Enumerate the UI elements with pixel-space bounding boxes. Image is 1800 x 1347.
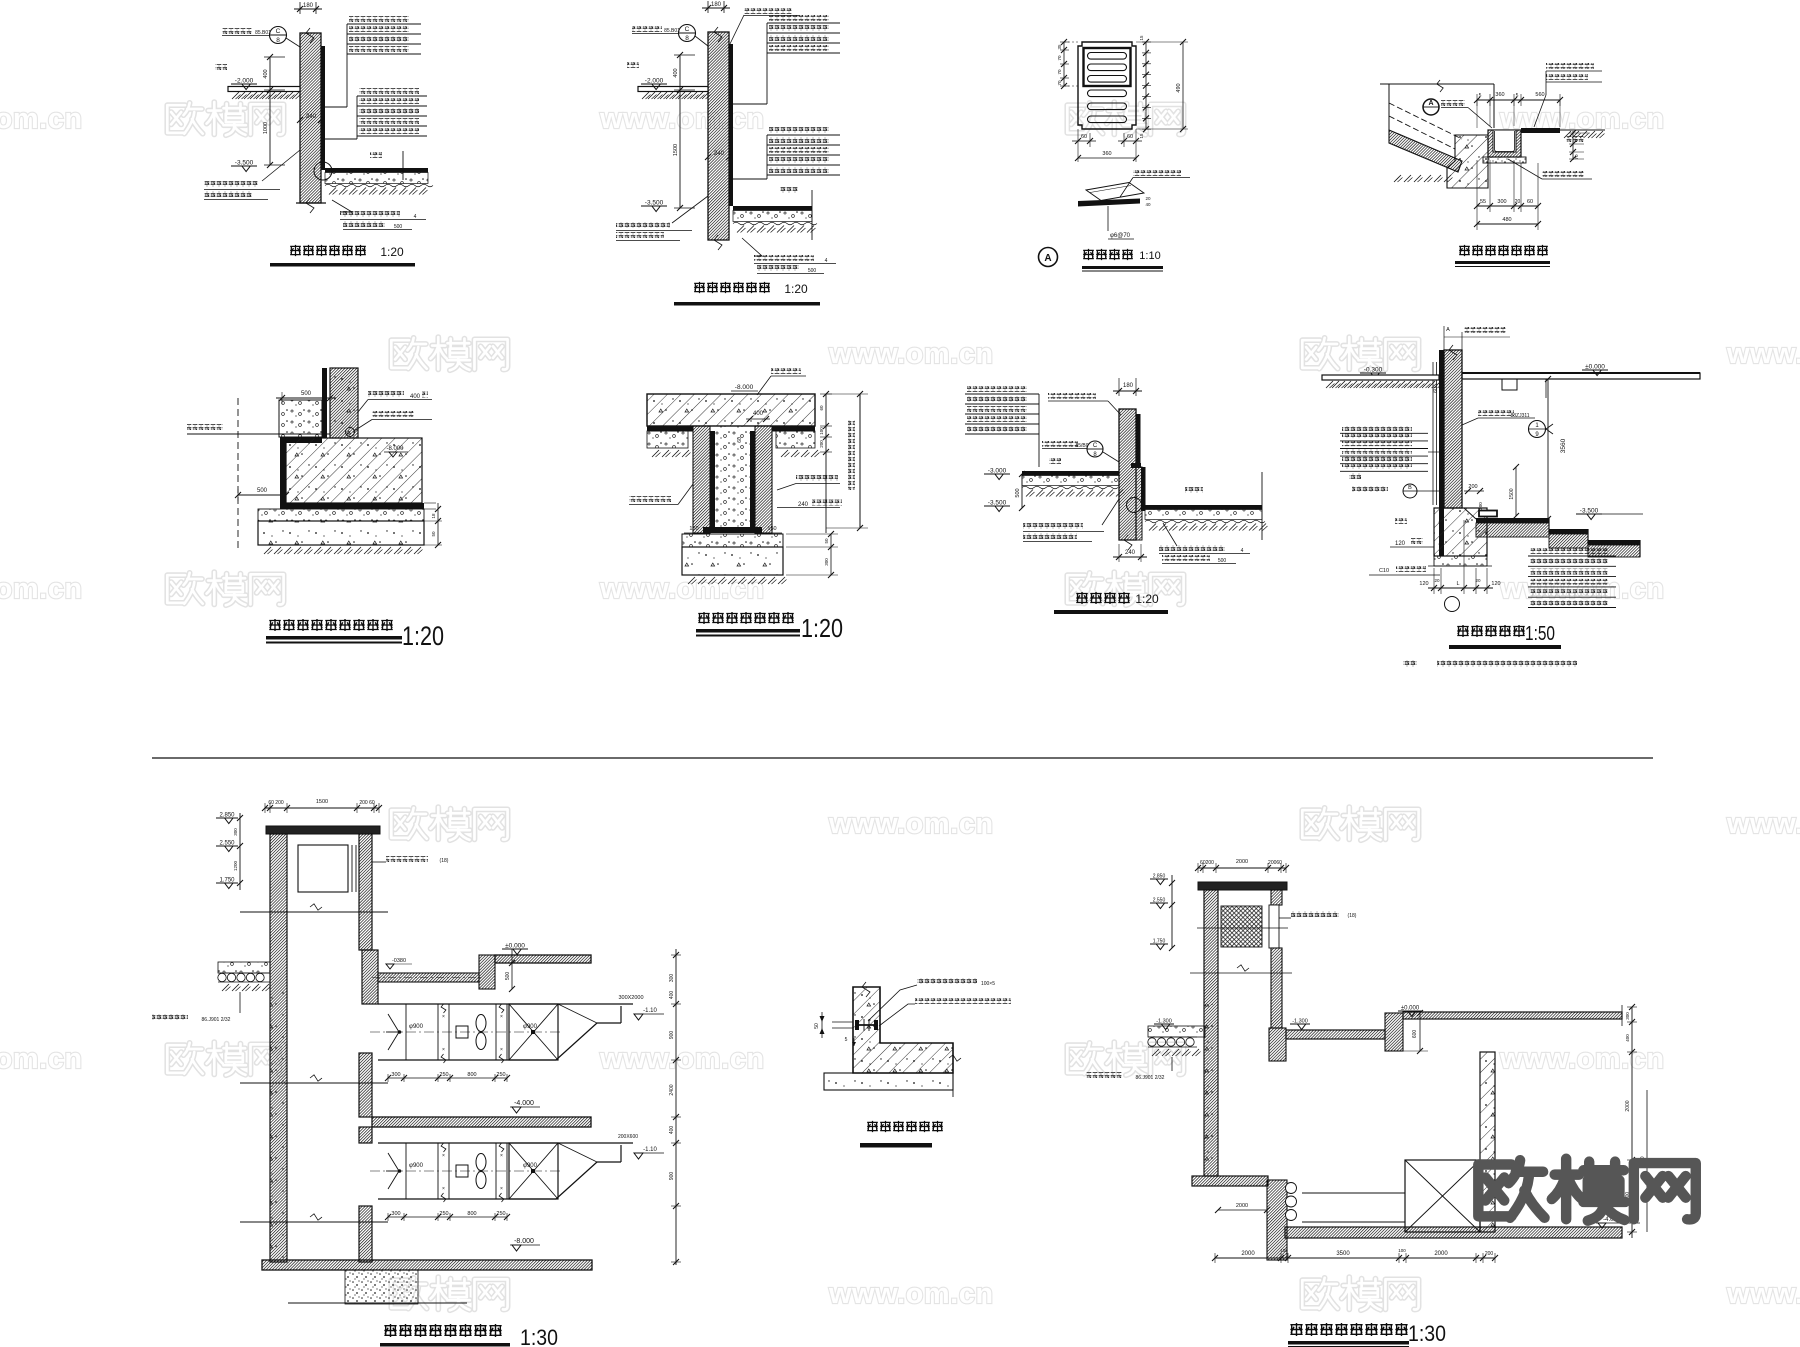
svg-text:200 60: 200 60 xyxy=(359,800,375,806)
d1 title xyxy=(290,245,301,256)
svg-text:C10: C10 xyxy=(1379,568,1389,574)
d1 callout stack mid-right xyxy=(359,88,419,94)
d2 callout stack mid-right xyxy=(769,127,829,133)
svg-text:250: 250 xyxy=(439,1072,448,1078)
d7 bottom dim 240 xyxy=(1118,544,1120,562)
d6 top slab xyxy=(647,394,815,426)
d9 grille box xyxy=(298,845,348,892)
d3 bubble A xyxy=(1039,248,1058,267)
svg-text:A: A xyxy=(1044,253,1051,264)
d1 wall bottom break xyxy=(306,198,314,213)
svg-text:A: A xyxy=(1428,100,1433,107)
svg-text:250: 250 xyxy=(439,1211,448,1217)
d5 cushion layers xyxy=(258,509,424,521)
d4 top slab line xyxy=(1380,83,1494,85)
svg-text:×: × xyxy=(500,1014,503,1020)
d5 wall xyxy=(330,368,358,438)
d8 wall protection line xyxy=(1432,362,1434,505)
d6 leader 钢筋混凝土地梁 left xyxy=(629,496,671,502)
d9 right wall segments xyxy=(359,834,372,950)
svg-text:-8.000: -8.000 xyxy=(386,446,404,452)
d11 center lines xyxy=(1197,927,1288,929)
svg-text:250: 250 xyxy=(496,1072,505,1078)
d11 left wall xyxy=(1204,890,1218,1176)
d8 ground left xyxy=(1322,375,1439,380)
d6 bottom right dims xyxy=(830,534,832,575)
svg-text:60: 60 xyxy=(737,437,743,443)
d7 title xyxy=(1076,592,1087,604)
svg-text:55: 55 xyxy=(1480,199,1486,205)
detail6 地梁处防水大样 group xyxy=(629,368,868,643)
d1 vertical dim 400/1000 xyxy=(269,57,271,165)
d6 title xyxy=(698,612,709,624)
d1 bubble leader text xyxy=(222,28,252,34)
d4 right small dims xyxy=(1572,131,1574,160)
d10 title xyxy=(867,1121,878,1132)
svg-text:(18): (18) xyxy=(440,858,449,864)
d11 lower slab xyxy=(1285,1227,1622,1238)
d8 wall membrane left xyxy=(1439,350,1444,556)
d11 right wall xyxy=(1480,1052,1495,1232)
d2 boundary line right xyxy=(811,190,813,240)
svg-text:www.om.cn: www.om.cn xyxy=(1499,1043,1665,1075)
d3 3d plate top face xyxy=(1086,183,1144,201)
d3 grate outline xyxy=(1078,42,1136,129)
d5 pile cap mass xyxy=(286,438,422,503)
svg-text:1:20: 1:20 xyxy=(380,245,404,259)
d1 text 240 in wall xyxy=(297,117,303,123)
svg-text:×: × xyxy=(442,1153,445,1159)
d2 wall breaks xyxy=(714,235,722,250)
d8 note xyxy=(1403,660,1417,667)
svg-text:www.om.cn: www.om.cn xyxy=(828,338,994,370)
svg-text:600: 600 xyxy=(1412,1030,1418,1039)
svg-text:480: 480 xyxy=(1502,217,1511,223)
d2 vertical dim 400/1500 xyxy=(679,55,681,208)
detail10 地下室施工缝 group xyxy=(814,978,1020,1148)
svg-text:www.om.cn: www.om.cn xyxy=(599,1043,765,1075)
d8 right callout stack xyxy=(1530,548,1608,554)
d9 right dim chain xyxy=(675,949,677,1265)
d6 slab membrane wings xyxy=(647,426,693,432)
d8 floor steps xyxy=(1476,518,1549,523)
d9 footing block xyxy=(345,1270,418,1304)
d3 grate slots xyxy=(1088,53,1127,60)
d8 left callout stack xyxy=(1342,426,1412,431)
d4 top-right callouts xyxy=(1546,63,1594,69)
d7 top dim 180 xyxy=(1118,378,1120,396)
d7 wall bottom break xyxy=(1124,535,1132,550)
detail9 地下室排风井道大样 group xyxy=(152,799,681,1347)
svg-text:1200: 1200 xyxy=(233,860,238,871)
svg-text:-3.500: -3.500 xyxy=(645,200,664,207)
svg-text:70: 70 xyxy=(1057,69,1062,75)
d11 step block with sleeves xyxy=(1267,1180,1287,1260)
d11 duct lines xyxy=(1302,1192,1405,1194)
detail4 车道起始点排水沟 group xyxy=(1380,63,1605,267)
d10 left dims xyxy=(832,1021,853,1023)
svg-text:300X2000: 300X2000 xyxy=(618,995,643,1001)
d2 text 设备间 xyxy=(780,187,798,193)
svg-text:1:20: 1:20 xyxy=(1135,592,1159,606)
d4 cover plate right xyxy=(1521,128,1560,133)
svg-text:18: 18 xyxy=(431,513,436,519)
d8 bottom dims xyxy=(1433,568,1435,594)
d3 3d plate front edge xyxy=(1078,199,1140,207)
svg-text:1:20: 1:20 xyxy=(801,613,843,643)
d2 leader bottom-left xyxy=(672,196,708,223)
d7 leader bottom-left xyxy=(1102,499,1119,525)
d11 bottom dim chain xyxy=(1215,1257,1495,1259)
d3 bottom dims 60/60/360 xyxy=(1077,129,1079,162)
svg-text:×: × xyxy=(500,1153,503,1159)
svg-text:1500: 1500 xyxy=(1509,488,1515,499)
d8 bottom circle xyxy=(1445,597,1460,612)
svg-text:15: 15 xyxy=(1139,35,1144,41)
d2 membrane right face xyxy=(729,44,733,206)
svg-text:200: 200 xyxy=(1478,502,1483,510)
svg-text:400: 400 xyxy=(669,991,675,1000)
d5 wall membrane xyxy=(322,368,327,438)
svg-text:360: 360 xyxy=(1102,151,1111,157)
d1 wall hatched xyxy=(300,33,321,203)
d5 left dim 500 xyxy=(238,494,286,496)
svg-text:120: 120 xyxy=(1491,581,1500,587)
d7 text 本层 xyxy=(1049,458,1061,464)
svg-text:www.om.cn: www.om.cn xyxy=(1726,338,1800,370)
svg-text:×: × xyxy=(442,1186,445,1192)
svg-text:-8.000: -8.000 xyxy=(735,384,754,391)
svg-text:15: 15 xyxy=(1139,133,1144,139)
svg-text:-2.000: -2.000 xyxy=(645,78,664,85)
d11 room upper slab xyxy=(1286,1030,1385,1039)
d9 top cap slab xyxy=(266,826,380,834)
d11 X-box equipment xyxy=(1405,1160,1480,1232)
svg-text:300: 300 xyxy=(1625,1012,1630,1020)
svg-text:-3.500: -3.500 xyxy=(235,160,254,167)
d4 leader 70厚C10 xyxy=(1542,171,1584,177)
svg-text:A: A xyxy=(1446,327,1450,333)
detail8 地下室防水 group xyxy=(1322,326,1700,667)
svg-text:50: 50 xyxy=(824,538,829,544)
svg-text:1500: 1500 xyxy=(673,144,679,156)
svg-text:2000: 2000 xyxy=(1625,1100,1631,1111)
d11 column block xyxy=(1385,1013,1403,1051)
d8 title xyxy=(1457,625,1468,637)
svg-text:150: 150 xyxy=(767,526,776,532)
d8 leader to wall xyxy=(1428,451,1439,453)
svg-text:5: 5 xyxy=(845,1037,848,1043)
svg-text:2000: 2000 xyxy=(1241,1251,1255,1257)
svg-text:-3.500: -3.500 xyxy=(1580,508,1599,515)
svg-text:1:50: 1:50 xyxy=(1525,623,1555,645)
svg-text:86.J901 2/32: 86.J901 2/32 xyxy=(202,1017,231,1023)
d7 wall upper xyxy=(1119,409,1136,540)
d10 cushion xyxy=(824,1073,953,1090)
svg-text:490: 490 xyxy=(1176,83,1182,92)
d5 dashed boundary xyxy=(237,398,239,548)
d11 title xyxy=(1290,1323,1302,1336)
d11 cap slab xyxy=(1198,882,1287,890)
svg-text:560: 560 xyxy=(1535,92,1544,98)
d1 bubble xyxy=(270,27,287,44)
d6 right dim chain xyxy=(825,394,827,533)
d9 bottom line xyxy=(288,1302,467,1304)
svg-text:100: 100 xyxy=(819,427,824,435)
d5 membrane under mass xyxy=(280,503,424,509)
d11 ground left xyxy=(1148,1026,1205,1037)
svg-text:100: 100 xyxy=(1280,1248,1288,1253)
svg-text:8: 8 xyxy=(685,35,689,42)
d1 boundary line right xyxy=(402,151,404,180)
d6 overall right dim xyxy=(859,394,861,528)
svg-text:60: 60 xyxy=(1527,199,1533,205)
d2 top-right leader xyxy=(744,8,792,14)
svg-text:200: 200 xyxy=(819,440,824,448)
svg-text:60: 60 xyxy=(819,405,824,411)
d9 duct assembly 2 xyxy=(378,1142,556,1144)
svg-text:φ900: φ900 xyxy=(409,1163,424,1169)
svg-text:8: 8 xyxy=(276,37,280,44)
svg-text:2000: 2000 xyxy=(1236,1203,1248,1209)
d9 grille leader xyxy=(372,861,386,863)
svg-text:-0380: -0380 xyxy=(392,958,406,964)
d9 slab from shaft -0.380 xyxy=(378,973,479,982)
d8 misc small labels xyxy=(1349,473,1361,479)
d1 text 室外 xyxy=(215,64,227,70)
svg-text:500: 500 xyxy=(505,972,511,981)
svg-text:180: 180 xyxy=(303,3,314,9)
svg-text:40: 40 xyxy=(1145,202,1151,207)
d9 duct assembly 1 xyxy=(378,1003,556,1005)
d11 right dim chain xyxy=(1631,1007,1633,1238)
d4 ramp dashed lines xyxy=(1389,103,1462,139)
svg-text:180: 180 xyxy=(711,2,722,8)
d4 cushion under channel xyxy=(1483,157,1526,163)
svg-text:1:30: 1:30 xyxy=(520,1325,558,1347)
d7 floor right lower xyxy=(1145,505,1262,510)
d2 floor buildup right xyxy=(733,206,812,211)
svg-text:www.om.cn: www.om.cn xyxy=(599,573,765,605)
svg-text:240: 240 xyxy=(714,151,725,157)
svg-text:www.om.cn: www.om.cn xyxy=(599,103,765,135)
d10 wall and floor xyxy=(853,987,953,1073)
d5 membrane step under block xyxy=(280,437,322,443)
detail2 侧壁地面防水 group xyxy=(616,1,840,306)
d7 membrane right face xyxy=(1136,414,1141,467)
svg-text:20: 20 xyxy=(1475,578,1481,583)
svg-text:400: 400 xyxy=(673,68,679,77)
d9 ground leader text xyxy=(239,992,241,1013)
d11 bottom-left slab xyxy=(1192,1176,1268,1186)
d11 grille leader xyxy=(1279,917,1291,919)
d2 title xyxy=(694,282,705,293)
d11 grille block xyxy=(1221,906,1262,947)
svg-text:2000: 2000 xyxy=(1236,859,1248,865)
d6 vertical text line xyxy=(848,420,855,490)
svg-text:100: 100 xyxy=(1398,1248,1406,1253)
d1 membrane on wall right face xyxy=(321,46,325,170)
d10 leader 1 xyxy=(868,985,917,1021)
svg-text:400: 400 xyxy=(753,411,764,417)
svg-text:250: 250 xyxy=(496,1211,505,1217)
detail3 明沟盖板 group xyxy=(1039,35,1191,271)
d9 top dim chain xyxy=(265,807,379,809)
svg-text:1:20: 1:20 xyxy=(784,282,808,296)
d1 top dim 180 xyxy=(299,2,301,14)
d6 beam membrane wrap xyxy=(710,431,715,527)
d4 bubble A with leader xyxy=(1423,99,1439,115)
d6 beam side walls xyxy=(693,426,710,533)
svg-text:900: 900 xyxy=(669,1172,675,1181)
svg-text:200X600: 200X600 xyxy=(618,1134,638,1140)
d5 leader 钢筋混凝土侧壁400厚 xyxy=(368,391,404,397)
d11 ground leader text xyxy=(1171,1057,1173,1071)
d1 leader bottom-right xyxy=(332,200,352,212)
svg-text:120: 120 xyxy=(1419,581,1428,587)
svg-text:1:30: 1:30 xyxy=(1408,1321,1446,1346)
d10 waterstop xyxy=(857,1024,877,1026)
d1 text 本层 xyxy=(370,152,382,158)
svg-text:70: 70 xyxy=(1057,80,1062,86)
d2 bubble xyxy=(679,25,696,42)
svg-text:800: 800 xyxy=(467,1072,476,1078)
d5 upper notch block xyxy=(279,400,322,437)
svg-text:-2.000: -2.000 xyxy=(235,78,254,85)
d4 bottom dim chains xyxy=(1476,160,1478,230)
svg-text:1:10: 1:10 xyxy=(1139,250,1160,262)
svg-text:±0.000: ±0.000 xyxy=(1585,364,1605,371)
svg-text:180: 180 xyxy=(1123,383,1134,389)
d11 right wall pieces xyxy=(1271,890,1282,905)
d1 callout stack top-right xyxy=(349,16,409,22)
d8 top ext and label xyxy=(1443,326,1445,350)
d3 left dim chain xyxy=(1063,42,1065,86)
d4 concrete block under channel xyxy=(1447,135,1488,188)
d5 top dim 500 xyxy=(281,392,283,404)
d3 overall dim 490 xyxy=(1182,42,1184,129)
d8 施工缝 label + bubble B xyxy=(1352,486,1388,492)
svg-text:70: 70 xyxy=(1057,55,1062,61)
svg-text:×: × xyxy=(500,1047,503,1053)
d4 ramp slab xyxy=(1389,130,1462,172)
d7 left vert dim 500 xyxy=(1021,474,1023,508)
svg-text:60: 60 xyxy=(1433,387,1439,393)
d8 leader 尾墙 with bubble xyxy=(1478,410,1514,416)
d11 interior dim 2000 xyxy=(1218,1209,1267,1211)
d3 lower leader xyxy=(1107,206,1109,231)
d6 below-slab speckle strips xyxy=(647,431,688,448)
d9 ground left xyxy=(218,962,270,973)
d4 drain channel xyxy=(1488,130,1521,157)
d2 text 240 in wall xyxy=(705,154,711,160)
d6 leader 地下室底板 xyxy=(771,368,801,374)
svg-text:20: 20 xyxy=(1515,199,1521,205)
svg-text:φ900: φ900 xyxy=(523,1163,538,1169)
svg-text:150: 150 xyxy=(689,526,698,532)
svg-text:300: 300 xyxy=(233,828,238,836)
svg-text:C: C xyxy=(685,26,690,33)
svg-text:-1.10: -1.10 xyxy=(643,1147,657,1153)
d2 text 室外 xyxy=(627,62,639,68)
d1 ground line left xyxy=(228,87,300,92)
d7 text 防腐蚀专用 xyxy=(1042,441,1078,447)
d3 right dim chain xyxy=(1145,42,1147,129)
svg-text:400: 400 xyxy=(669,1126,675,1135)
svg-text:www.om.cn: www.om.cn xyxy=(1726,808,1800,840)
svg-text:3500: 3500 xyxy=(1336,1251,1350,1257)
d8 pile cap xyxy=(1434,508,1487,556)
svg-text:-1.10: -1.10 xyxy=(643,1008,657,1014)
d7 leader bottom-right xyxy=(1163,523,1177,546)
svg-text:300: 300 xyxy=(391,1211,400,1217)
svg-text:60: 60 xyxy=(1127,134,1133,140)
svg-text:www.om.cn: www.om.cn xyxy=(0,1043,83,1075)
d7 left callout stack xyxy=(967,386,1027,392)
svg-text:-4.000: -4.000 xyxy=(514,1100,534,1107)
d2 leader bottom-right xyxy=(742,238,762,256)
svg-text:400: 400 xyxy=(1625,1034,1630,1042)
d1 leader bottom-left xyxy=(262,150,300,181)
svg-text:35: 35 xyxy=(1057,44,1062,50)
svg-text:2400: 2400 xyxy=(669,1084,675,1095)
d7 corner circle xyxy=(1127,498,1142,513)
svg-text:70: 70 xyxy=(1574,154,1579,160)
d6 beam core xyxy=(715,426,750,533)
svg-text:200: 200 xyxy=(1485,1251,1494,1257)
d5 right bottom dims xyxy=(424,502,436,504)
svg-text:300: 300 xyxy=(824,558,829,566)
svg-text:900: 900 xyxy=(669,1031,675,1040)
svg-text:1:20: 1:20 xyxy=(402,621,444,651)
svg-text:www.om.cn: www.om.cn xyxy=(828,808,994,840)
svg-text:www.om.cn: www.om.cn xyxy=(0,103,83,135)
svg-text:50: 50 xyxy=(431,531,436,537)
d2 callout stack top-right xyxy=(769,15,829,21)
d8 interior lines xyxy=(1545,379,1547,398)
detail5 承台侧壁处防水大样 group xyxy=(187,368,444,651)
d8 ground slab right xyxy=(1462,373,1700,379)
d6 leader 两侧夯实混凝土 xyxy=(796,475,838,481)
d5 leader 成品钢板止水带 xyxy=(187,424,223,430)
d5 leader 施工缝嵌密封胶 xyxy=(372,411,414,417)
svg-text:www.om.cn: www.om.cn xyxy=(1726,1278,1800,1310)
svg-text:500: 500 xyxy=(257,488,268,494)
d11 left dim chain xyxy=(1171,875,1173,948)
svg-text:50: 50 xyxy=(814,1023,820,1029)
svg-text:±0.000: ±0.000 xyxy=(505,943,525,950)
d9 title xyxy=(384,1324,396,1337)
d7 ground floor left xyxy=(1022,471,1119,476)
d6 footing xyxy=(682,534,783,547)
d2 top dim 180 xyxy=(707,1,709,13)
svg-text:800: 800 xyxy=(467,1211,476,1217)
svg-text:(18): (18) xyxy=(1348,913,1357,919)
d8 wall xyxy=(1444,350,1462,508)
d11 dim 600 xyxy=(1419,1013,1421,1051)
svg-text:C: C xyxy=(1093,443,1098,449)
d8 top break xyxy=(1449,345,1457,360)
d3 title xyxy=(1083,249,1094,260)
d7 bubble xyxy=(1087,441,1103,457)
d9 level lines across shaft xyxy=(240,911,388,913)
svg-text:×: × xyxy=(442,1014,445,1020)
d2 ground line left xyxy=(638,87,708,92)
d1 floor buildup right xyxy=(325,168,428,173)
d8 right dim 3560 xyxy=(1547,379,1549,519)
d3 grate frame xyxy=(1084,48,1131,86)
detail1 侧壁地面防水 group xyxy=(204,2,433,267)
